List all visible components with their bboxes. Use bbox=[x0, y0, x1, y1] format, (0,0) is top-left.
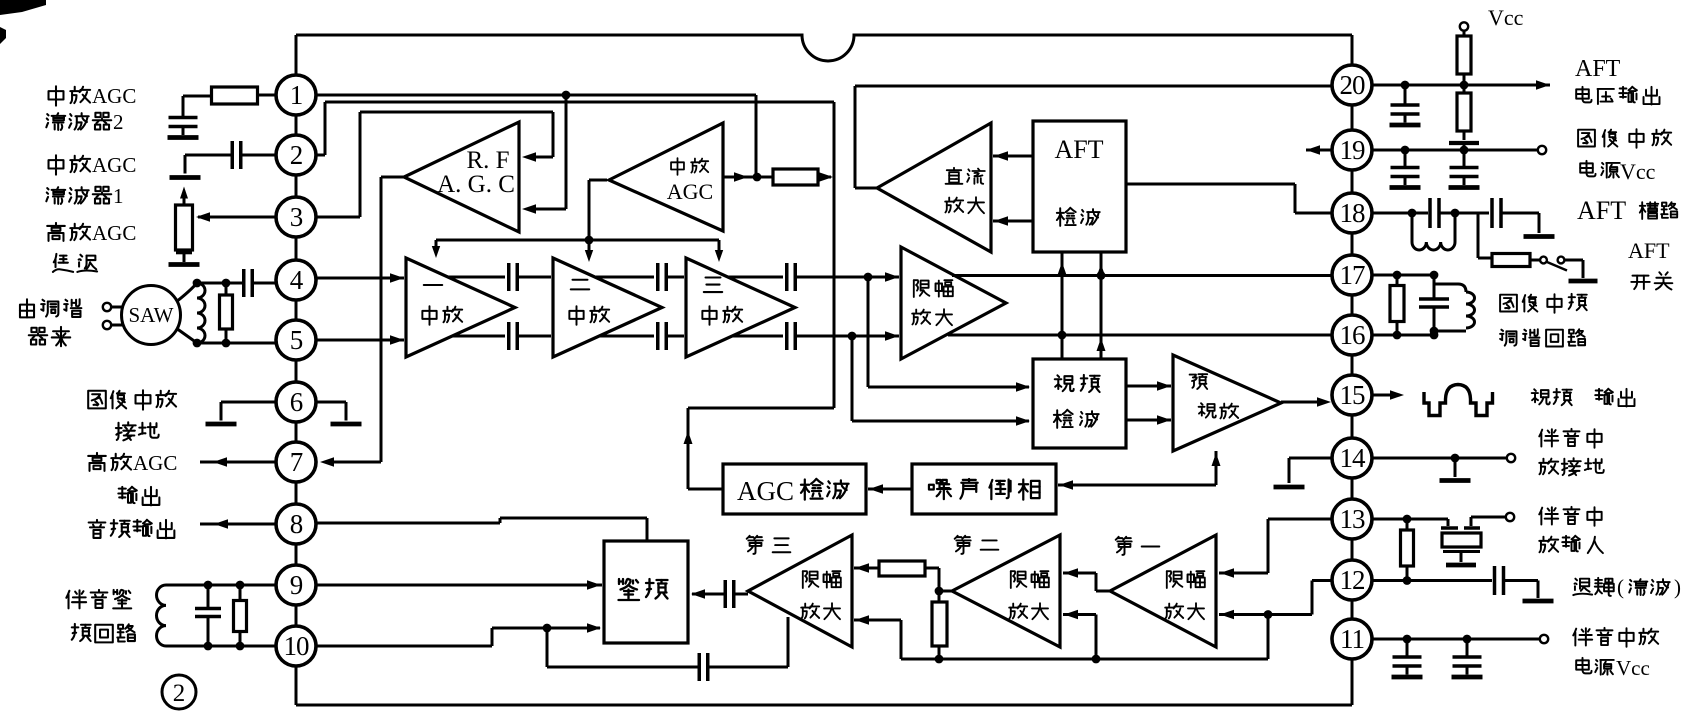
svg-text:16: 16 bbox=[1340, 320, 1366, 350]
svg-text:R. F: R. F bbox=[466, 147, 509, 174]
svg-text:20: 20 bbox=[1340, 70, 1366, 100]
svg-text:AFT: AFT bbox=[1054, 135, 1103, 164]
svg-text:AFT: AFT bbox=[1628, 238, 1670, 263]
svg-text:AGC: AGC bbox=[92, 84, 136, 108]
svg-text:14: 14 bbox=[1340, 443, 1367, 473]
svg-text:SAW: SAW bbox=[129, 303, 174, 327]
svg-text:18: 18 bbox=[1340, 198, 1366, 228]
svg-text:19: 19 bbox=[1340, 135, 1366, 165]
svg-text:Vcc: Vcc bbox=[1616, 656, 1650, 680]
svg-text:7: 7 bbox=[290, 447, 303, 477]
svg-text:AGC: AGC bbox=[737, 476, 794, 506]
svg-text:): ) bbox=[1674, 575, 1681, 599]
svg-text:12: 12 bbox=[1340, 565, 1366, 595]
svg-text:AGC: AGC bbox=[667, 179, 713, 204]
svg-text:8: 8 bbox=[290, 509, 303, 539]
svg-text:2: 2 bbox=[173, 680, 186, 707]
svg-text:3: 3 bbox=[290, 202, 303, 232]
svg-text:AFT: AFT bbox=[1575, 56, 1621, 82]
svg-text:9: 9 bbox=[290, 570, 303, 600]
svg-text:2: 2 bbox=[290, 140, 303, 170]
svg-text:AFT: AFT bbox=[1577, 196, 1626, 225]
svg-text:AGC: AGC bbox=[133, 451, 177, 475]
svg-text:2: 2 bbox=[113, 110, 124, 134]
svg-text:1: 1 bbox=[290, 80, 303, 110]
svg-text:15: 15 bbox=[1340, 380, 1366, 410]
svg-text:AGC: AGC bbox=[92, 221, 136, 245]
svg-text:17: 17 bbox=[1340, 260, 1366, 290]
svg-text:10: 10 bbox=[284, 631, 310, 661]
svg-text:1: 1 bbox=[113, 184, 124, 208]
svg-text:13: 13 bbox=[1340, 504, 1366, 534]
svg-text:Vcc: Vcc bbox=[1488, 5, 1524, 30]
svg-text:11: 11 bbox=[1340, 624, 1364, 654]
svg-text:A. G. C: A. G. C bbox=[437, 171, 515, 198]
svg-text:AGC: AGC bbox=[92, 153, 136, 177]
svg-text:6: 6 bbox=[290, 387, 303, 417]
svg-text:Vcc: Vcc bbox=[1620, 159, 1656, 184]
svg-text:4: 4 bbox=[290, 265, 304, 295]
svg-text:(: ( bbox=[1617, 575, 1624, 599]
svg-text:5: 5 bbox=[290, 325, 303, 355]
